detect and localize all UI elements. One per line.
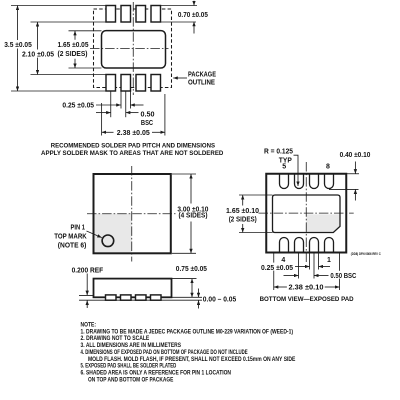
svg-text:4. DIMENSIONS OF EXPOSED PAD O: 4. DIMENSIONS OF EXPOSED PAD ON BOTTOM O… <box>81 349 248 356</box>
solder pads top row <box>106 6 161 23</box>
pin 1 top mark circle <box>102 235 114 247</box>
pin1 shaded quadrant <box>95 214 132 253</box>
pin number 8 <box>326 164 330 171</box>
svg-text:0.25 ±0.05: 0.25 ±0.05 <box>261 265 293 272</box>
dimension 0.25 ±0.05 d1 <box>62 103 143 110</box>
dimension 2.38 ±0.05 d1 <box>102 130 165 137</box>
svg-text:0.50: 0.50 <box>141 112 155 119</box>
centerline vertical d4 <box>305 162 307 262</box>
svg-text:TYP: TYP <box>279 158 292 165</box>
package body top view <box>94 174 171 253</box>
svg-text:(4 SIDES): (4 SIDES) <box>179 213 208 220</box>
svg-text:2.10 ±0.05: 2.10 ±0.05 <box>22 51 54 58</box>
extension lines d1 <box>11 6 197 136</box>
svg-text:2.38 ±0.05: 2.38 ±0.05 <box>117 130 150 137</box>
svg-text:R = 0.125: R = 0.125 <box>264 148 293 155</box>
svg-text:0.200 REF: 0.200 REF <box>72 267 104 274</box>
svg-text:PIN 1: PIN 1 <box>71 225 86 232</box>
svg-text:NOTE:: NOTE: <box>81 321 97 328</box>
caption recommended solder pad <box>41 142 223 156</box>
svg-text:ON TOP AND BOTTOM OF PACKAGE: ON TOP AND BOTTOM OF PACKAGE <box>88 377 173 384</box>
exposed pad outline with pin1 chamfer <box>273 195 341 233</box>
svg-text:1: 1 <box>327 257 331 264</box>
dimension 0.200 REF <box>72 267 104 308</box>
bottom pins (1-4) <box>280 238 334 253</box>
rev text <box>351 252 382 256</box>
dimension 0.50 BSC d4 <box>284 271 358 280</box>
centerline vertical d1 <box>132 2 134 95</box>
svg-text:BOTTOM VIEW—EXPOSED PAD: BOTTOM VIEW—EXPOSED PAD <box>260 296 354 303</box>
centerline horizontal d4 <box>259 212 354 214</box>
svg-text:BSC: BSC <box>141 120 153 127</box>
svg-text:1.65 ±0.10: 1.65 ±0.10 <box>226 208 259 215</box>
svg-text:0.50 BSC: 0.50 BSC <box>330 273 356 280</box>
pin number 4 <box>281 257 285 264</box>
label R = 0.125 TYP with leader arrow <box>264 148 298 186</box>
dimension 2.10 ±0.05 <box>22 22 54 75</box>
extension lines d4 bottom <box>274 253 340 291</box>
svg-text:1.65 ±0.05: 1.65 ±0.05 <box>58 42 89 49</box>
top pins (5-8) <box>280 174 334 189</box>
package body bottom view <box>266 174 346 253</box>
seating plane line <box>79 299 202 301</box>
label PACKAGE OUTLINE with leader arrow <box>173 72 216 87</box>
svg-text:0.70 ±0.05: 0.70 ±0.05 <box>178 12 208 19</box>
dimension 3.5 ±0.05 <box>4 6 32 92</box>
svg-text:APPLY SOLDER MASK TO AREAS THA: APPLY SOLDER MASK TO AREAS THAT ARE NOT … <box>41 150 223 157</box>
exposed pad shaded quadrant <box>307 214 340 232</box>
svg-text:8: 8 <box>326 164 330 171</box>
svg-text:PACKAGE: PACKAGE <box>188 72 216 79</box>
svg-text:(2 SIDES): (2 SIDES) <box>58 51 88 58</box>
dimension 0.70 ±0.05 <box>178 1 208 34</box>
label PIN 1 TOP MARK (NOTE 6) with leader arrow <box>54 225 102 250</box>
svg-text:(DD8) DFN 0806 REV C: (DD8) DFN 0806 REV C <box>351 252 382 256</box>
caption bottom view <box>260 296 354 303</box>
package bottom extension right <box>172 296 203 298</box>
svg-text:(2 SIDES): (2 SIDES) <box>229 216 257 223</box>
svg-text:0.40 ±0.10: 0.40 ±0.10 <box>340 152 371 159</box>
dimension 1.65 ±0.05 (2 SIDES) <box>58 31 89 68</box>
package outline dashed rect <box>94 9 172 88</box>
package body side view <box>94 279 172 298</box>
pin number 1 <box>327 257 331 264</box>
svg-text:RECOMMENDED SOLDER PAD PITCH A: RECOMMENDED SOLDER PAD PITCH AND DIMENSI… <box>51 142 216 149</box>
dimension 0.25 ±0.05 d4 <box>261 263 331 272</box>
dimension 0.00 – 0.05 <box>199 289 237 309</box>
dimension 3.00 ±0.10 (4 SIDES) <box>172 174 208 253</box>
pin number 5 <box>282 164 286 171</box>
svg-text:(NOTE 6): (NOTE 6) <box>58 243 87 250</box>
dimension 0.75 ±0.05 <box>172 266 208 297</box>
centerline vertical d2 <box>131 166 133 262</box>
svg-text:2.38 ±0.10: 2.38 ±0.10 <box>289 284 324 291</box>
dimension 2.38 ±0.10 d4 <box>274 284 340 291</box>
centerline horizontal d1 <box>90 48 169 50</box>
exposed pad solder area <box>102 31 166 68</box>
side view pads <box>106 295 162 300</box>
svg-text:0.75 ±0.05: 0.75 ±0.05 <box>176 266 207 273</box>
solder pads bottom row <box>106 75 161 92</box>
svg-text:5: 5 <box>282 164 286 171</box>
centerline horizontal d2 <box>87 213 176 215</box>
svg-text:3.5 ±0.05: 3.5 ±0.05 <box>4 42 32 49</box>
svg-text:TOP MARK: TOP MARK <box>54 234 87 241</box>
dimension 0.40 ±0.10 <box>329 152 370 201</box>
svg-text:OUTLINE: OUTLINE <box>188 80 215 87</box>
svg-text:0.25 ±0.05: 0.25 ±0.05 <box>62 103 94 110</box>
lead stub line left <box>79 294 99 296</box>
dimension 1.65 ±0.10 (2 SIDES) <box>226 195 273 233</box>
dimension 0.50 BSC d1 <box>96 112 155 127</box>
svg-text:0.00 – 0.05: 0.00 – 0.05 <box>203 297 237 304</box>
